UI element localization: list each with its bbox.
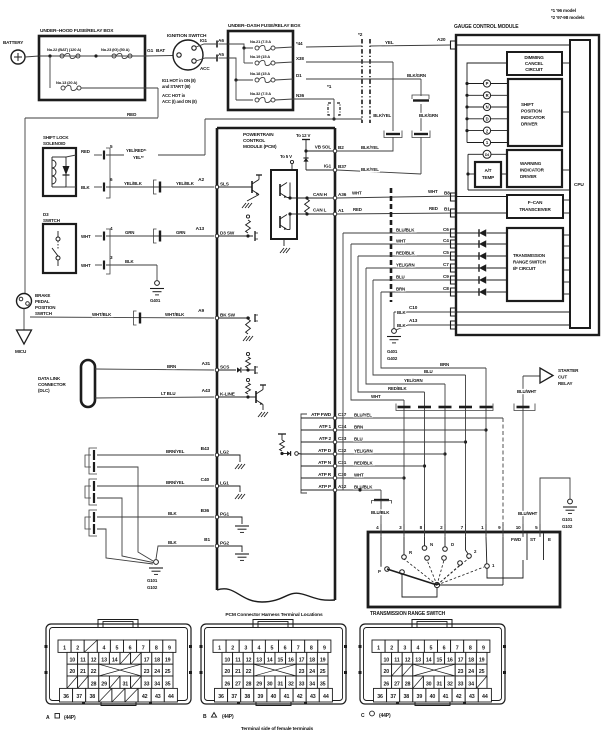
gauge pin C10 BLK xyxy=(394,305,570,316)
brake pedal position switch xyxy=(17,293,56,316)
wire column pin 2 YEL/GRN xyxy=(443,384,446,536)
svg-text:ATP 1: ATP 1 xyxy=(319,424,332,429)
wire column pin 10 BLU/WHT xyxy=(517,376,538,536)
svg-text:TRANSCEIVER: TRANSCEIVER xyxy=(519,207,551,212)
svg-text:A13: A13 xyxy=(409,318,418,323)
wire RED fuse 13 to brake switch xyxy=(25,112,158,294)
svg-text:43: 43 xyxy=(469,694,475,700)
svg-text:A43: A43 xyxy=(202,388,211,394)
wire BRN from PCM xyxy=(337,425,486,431)
svg-text:A5: A5 xyxy=(218,52,224,58)
wire BLK to B36 xyxy=(97,508,214,517)
wire BLK to B1 xyxy=(156,537,214,559)
svg-text:BLU/BLK: BLU/BLK xyxy=(371,510,390,515)
PCM pin B1 PG2 xyxy=(215,541,229,548)
svg-text:G102: G102 xyxy=(147,585,158,590)
svg-text:BK SW: BK SW xyxy=(220,313,236,318)
svg-text:3: 3 xyxy=(244,646,247,652)
indicator lamp N xyxy=(465,103,508,110)
svg-text:RED: RED xyxy=(353,207,362,212)
wire BLU/BLK junction to pin 4 xyxy=(358,488,390,536)
svg-text:39: 39 xyxy=(258,694,264,700)
svg-text:4: 4 xyxy=(102,646,105,652)
PCM pin A1 xyxy=(333,208,344,216)
svg-text:BLU: BLU xyxy=(424,369,433,374)
svg-text:18: 18 xyxy=(154,657,160,663)
wire column pin 1 BRN xyxy=(484,368,487,536)
wire BLK/GRN D1 to B37 xyxy=(306,73,438,174)
svg-text:A20: A20 xyxy=(437,37,446,43)
note model years xyxy=(551,8,585,20)
svg-text:*1: *1 xyxy=(327,84,332,90)
svg-text:DRIVER: DRIVER xyxy=(521,122,538,127)
svg-text:SOLENOID: SOLENOID xyxy=(43,141,66,146)
svg-text:24: 24 xyxy=(468,669,474,675)
svg-text:1: 1 xyxy=(218,646,221,652)
svg-text:INDICATOR: INDICATOR xyxy=(521,115,546,120)
svg-text:35: 35 xyxy=(320,681,326,687)
svg-text:22: 22 xyxy=(246,669,252,675)
wire A6 feed bus xyxy=(228,44,253,63)
range switch pin 10 xyxy=(516,524,523,537)
range switch pin 5 xyxy=(535,524,540,537)
svg-text:23: 23 xyxy=(458,669,464,675)
wire column pin 9 BLU/YEL dashed xyxy=(502,418,504,536)
svg-text:14: 14 xyxy=(426,657,432,663)
wire pin 5 to G101/G102 xyxy=(540,478,570,536)
range switch pin 4 xyxy=(376,524,381,537)
svg-text:C4: C4 xyxy=(443,238,449,243)
svg-text:B1: B1 xyxy=(444,207,450,212)
PCM pin A13 D3 SW xyxy=(215,231,235,238)
svg-text:CIRCUIT: CIRCUIT xyxy=(525,67,543,72)
svg-text:ATP FWD: ATP FWD xyxy=(311,412,332,417)
PCM CAN H wire xyxy=(297,192,335,200)
svg-text:D3: D3 xyxy=(43,212,49,217)
svg-text:5: 5 xyxy=(430,646,433,652)
svg-text:ATP D: ATP D xyxy=(318,448,332,453)
svg-text:C32: C32 xyxy=(338,448,347,453)
svg-text:VB SOL: VB SOL xyxy=(315,145,332,150)
svg-text:RANGE SWITCH: RANGE SWITCH xyxy=(513,260,546,265)
svg-text:10: 10 xyxy=(516,525,521,530)
svg-text:6: 6 xyxy=(284,646,287,652)
svg-text:CONTROL: CONTROL xyxy=(243,138,265,143)
svg-text:B37: B37 xyxy=(338,164,347,169)
PCM pin C33 xyxy=(333,436,346,444)
PCM PG2 ground xyxy=(218,546,249,560)
PCM CAN termination resistor xyxy=(305,199,310,213)
svg-text:35: 35 xyxy=(165,681,171,687)
svg-text:1: 1 xyxy=(63,646,66,652)
range switch pin 7 xyxy=(461,524,466,537)
wire column pin 3 WHT xyxy=(402,400,405,536)
connector C on BLK/GRN lower xyxy=(412,131,430,138)
svg-text:38: 38 xyxy=(89,694,95,700)
svg-text:BRN: BRN xyxy=(167,364,176,369)
range switch pin 8 xyxy=(420,524,425,537)
svg-text:C33: C33 xyxy=(338,436,347,441)
svg-text:DIMMING: DIMMING xyxy=(524,55,544,60)
svg-text:42: 42 xyxy=(297,694,303,700)
svg-text:G102: G102 xyxy=(562,524,573,529)
gauge pin A20 xyxy=(451,41,571,49)
PCM ATP FWD row xyxy=(301,412,335,418)
svg-text:SHIFT: SHIFT xyxy=(521,102,534,107)
svg-text:To 5 V: To 5 V xyxy=(280,154,292,159)
svg-text:36: 36 xyxy=(377,694,383,700)
svg-text:MICU: MICU xyxy=(15,349,27,354)
svg-text:C30: C30 xyxy=(338,472,347,477)
PCM pin C34 xyxy=(333,424,346,432)
svg-text:BLK: BLK xyxy=(397,310,407,315)
fuse No.32 (7.5 A) xyxy=(250,91,305,103)
svg-text:G1: G1 xyxy=(147,48,154,54)
svg-text:LG2: LG2 xyxy=(220,450,229,455)
svg-text:A31: A31 xyxy=(202,361,211,367)
PCM ATP 2 row xyxy=(301,436,335,442)
svg-text:ACC HOT in: ACC HOT in xyxy=(162,93,186,98)
svg-text:10: 10 xyxy=(225,657,231,663)
svg-text:LG1: LG1 xyxy=(220,481,229,486)
svg-text:BLU/BLK: BLU/BLK xyxy=(354,485,373,490)
svg-text:C9: C9 xyxy=(443,274,449,279)
indicator lamp P xyxy=(465,80,508,87)
svg-text:24: 24 xyxy=(309,669,315,675)
svg-text:STARTER: STARTER xyxy=(558,368,579,373)
svg-text:*44: *44 xyxy=(296,41,303,46)
svg-text:36: 36 xyxy=(63,694,69,700)
wire BRN gauge C8 xyxy=(381,287,456,293)
svg-text:25: 25 xyxy=(479,669,485,675)
svg-text:B1: B1 xyxy=(204,537,210,543)
svg-text:UNDER–HOOD FUSE/RELAY BOX: UNDER–HOOD FUSE/RELAY BOX xyxy=(40,28,114,34)
svg-text:13: 13 xyxy=(256,657,262,663)
PCM connector A (44P) xyxy=(45,620,193,722)
solenoid pin 5 xyxy=(81,144,113,198)
wire BLK/YEL X38 to B2 xyxy=(306,62,393,151)
wire IG1 to A6 xyxy=(196,38,228,48)
PCM pin A9 BK SW xyxy=(215,313,235,320)
PCM pin B37 xyxy=(333,164,346,172)
svg-text:31: 31 xyxy=(123,681,129,687)
svg-text:2: 2 xyxy=(390,646,393,652)
wire BLK to G401 xyxy=(106,259,157,280)
harness connector row xyxy=(396,404,535,411)
fuse No.18 (15 A) xyxy=(250,71,302,83)
svg-text:BLU: BLU xyxy=(354,437,363,442)
svg-text:IG1 HOT in ON (II): IG1 HOT in ON (II) xyxy=(162,78,196,83)
svg-text:BLK: BLK xyxy=(168,540,178,545)
svg-text:INDICATOR: INDICATOR xyxy=(520,168,545,173)
PCM LG1 ground xyxy=(218,486,245,499)
svg-text:5: 5 xyxy=(271,646,274,652)
wire WHT gauge C4 xyxy=(351,239,456,245)
MICU triangle xyxy=(15,309,32,355)
range switch dashed positions xyxy=(404,558,484,585)
svg-text:2: 2 xyxy=(76,646,79,652)
svg-text:LT BLU: LT BLU xyxy=(161,391,175,396)
svg-text:D: D xyxy=(451,542,454,547)
svg-text:9: 9 xyxy=(323,646,326,652)
fuse No.19 (15 A) xyxy=(250,54,304,66)
svg-text:BRAKE: BRAKE xyxy=(35,293,50,298)
svg-text:RED: RED xyxy=(127,112,137,117)
svg-text:Terminal side of female termin: Terminal side of female terminals xyxy=(241,726,314,732)
svg-text:RED: RED xyxy=(429,206,438,211)
svg-text:R: R xyxy=(486,93,489,98)
wire YEL/BLK to A2 xyxy=(106,177,214,187)
svg-text:C17: C17 xyxy=(338,412,347,417)
svg-text:28: 28 xyxy=(91,681,97,687)
svg-text:25: 25 xyxy=(165,669,171,675)
svg-text:MODULE (PCM): MODULE (PCM) xyxy=(243,144,277,149)
svg-text:WHT: WHT xyxy=(354,473,364,478)
svg-text:A13: A13 xyxy=(196,226,205,232)
indicator lamp 2 xyxy=(465,127,508,134)
D3 switch xyxy=(43,212,76,273)
gauge pin C8 with diode xyxy=(443,286,570,296)
svg-text:ACC (I) and ON (II): ACC (I) and ON (II) xyxy=(162,99,197,104)
svg-text:38: 38 xyxy=(403,694,409,700)
svg-text:37: 37 xyxy=(76,694,82,700)
svg-text:42: 42 xyxy=(456,694,462,700)
svg-text:A1: A1 xyxy=(338,208,344,213)
range switch pin 2 xyxy=(440,524,445,537)
ground G101 G102 left xyxy=(147,560,163,590)
connector on WHT/BLK xyxy=(134,311,141,325)
PCM pin C32 xyxy=(333,448,346,456)
shift lock solenoid xyxy=(43,135,76,196)
warning indicator driver box xyxy=(507,150,570,187)
svg-text:SLS: SLS xyxy=(220,182,229,187)
PCM CAN transceiver xyxy=(271,154,297,253)
svg-text:N: N xyxy=(430,542,433,547)
svg-text:BRN/YEL: BRN/YEL xyxy=(166,480,185,485)
wire ACC to A5 xyxy=(196,52,228,62)
svg-text:19: 19 xyxy=(165,657,171,663)
svg-text:25: 25 xyxy=(320,669,326,675)
svg-text:4: 4 xyxy=(257,646,260,652)
gauge pin C9 with diode xyxy=(443,274,570,284)
svg-text:UNDER–DASH FUSE/RELAY BOX: UNDER–DASH FUSE/RELAY BOX xyxy=(228,23,301,29)
svg-text:WHT: WHT xyxy=(81,263,91,268)
svg-text:6: 6 xyxy=(443,646,446,652)
svg-text:(44P): (44P) xyxy=(379,713,391,719)
svg-text:BLK/GRN: BLK/GRN xyxy=(407,73,426,78)
svg-text:43: 43 xyxy=(310,694,316,700)
PCM connector B (44P) xyxy=(200,620,348,721)
wire YEL/RED N36 branch xyxy=(205,99,362,155)
svg-text:C7: C7 xyxy=(443,262,449,267)
PCM ATP 1 row xyxy=(301,424,335,430)
PCM pin C17 xyxy=(333,412,346,420)
wire LT BLU to A43 xyxy=(95,388,214,398)
svg-text:BLK/YEL: BLK/YEL xyxy=(373,113,391,118)
svg-text:B43: B43 xyxy=(201,446,210,452)
indicator lamp 1 xyxy=(467,139,508,146)
caption terminal side xyxy=(241,726,314,732)
connector *2 xyxy=(358,32,370,123)
PCM CAN L wire xyxy=(297,208,335,216)
svg-text:TRANSMISSION RANGE SWITCH: TRANSMISSION RANGE SWITCH xyxy=(370,611,446,617)
svg-text:16: 16 xyxy=(447,657,453,663)
svg-text:TEMP: TEMP xyxy=(482,175,494,180)
svg-text:BRN: BRN xyxy=(396,287,405,292)
svg-text:23: 23 xyxy=(144,669,150,675)
under-hood fuse/relay box xyxy=(39,28,145,100)
transmission range switch connector C (44P) xyxy=(359,620,507,720)
svg-text:44: 44 xyxy=(482,694,488,700)
svg-text:YEL/GRN: YEL/GRN xyxy=(404,378,422,383)
svg-text:BRN: BRN xyxy=(440,362,449,367)
svg-text:9: 9 xyxy=(482,646,485,652)
svg-text:WHT: WHT xyxy=(81,234,91,239)
wire RED/BLK gauge C5 xyxy=(358,251,456,257)
svg-text:29: 29 xyxy=(101,681,107,687)
svg-text:B: B xyxy=(203,714,207,720)
PCM PG1 ground xyxy=(218,517,249,532)
svg-text:BLU: BLU xyxy=(396,275,405,280)
range switch FWD ST E labels xyxy=(511,534,551,561)
svg-text:PEDAL: PEDAL xyxy=(35,299,50,304)
svg-text:IG1: IG1 xyxy=(324,164,332,169)
svg-text:15: 15 xyxy=(437,657,443,663)
svg-text:CAN L: CAN L xyxy=(313,208,327,213)
svg-text:P: P xyxy=(486,81,489,86)
wire WHT descent xyxy=(351,244,404,400)
svg-text:YEL/RED*¹: YEL/RED*¹ xyxy=(126,148,147,153)
svg-text:29: 29 xyxy=(256,681,262,687)
svg-text:26: 26 xyxy=(384,681,390,687)
transmission range switch I/F circuit box xyxy=(507,228,563,301)
wire column pin 7 BLU xyxy=(464,375,467,536)
F-CAN transceiver box xyxy=(507,195,570,218)
svg-text:POWERTRAIN: POWERTRAIN xyxy=(243,132,274,137)
svg-text:C6: C6 xyxy=(443,227,449,232)
svg-text:1: 1 xyxy=(377,646,380,652)
svg-text:8: 8 xyxy=(155,646,158,652)
svg-text:GRN: GRN xyxy=(125,230,134,235)
wire WHT from PCM xyxy=(337,473,404,479)
range switch rotary contacts xyxy=(378,542,495,588)
PCM pin B36 PG1 xyxy=(215,512,229,519)
svg-text:CONNECTOR: CONNECTOR xyxy=(38,382,66,387)
svg-text:3: 3 xyxy=(403,646,406,652)
svg-text:7: 7 xyxy=(142,646,145,652)
svg-text:D1: D1 xyxy=(296,73,302,78)
range switch internal wiring xyxy=(381,537,523,597)
svg-text:15: 15 xyxy=(278,657,284,663)
PCM SLS driver transistor xyxy=(218,175,262,208)
wire BRN to A31 xyxy=(95,361,214,370)
svg-text:4: 4 xyxy=(416,646,419,652)
connector pair LG2 xyxy=(85,448,97,474)
svg-text:A12: A12 xyxy=(338,484,347,489)
ground G101 G102 right xyxy=(562,499,577,529)
wire BRN/YEL to C40 xyxy=(97,477,214,486)
svg-text:C40: C40 xyxy=(201,477,210,483)
wire A5 feed bus xyxy=(228,58,253,100)
svg-text:No.13 (20 A): No.13 (20 A) xyxy=(56,80,78,85)
wire pair3 to ground xyxy=(97,529,153,564)
wire BLU/BLK from PCM xyxy=(337,485,381,491)
range switch pin 3 xyxy=(399,524,404,537)
wire YEL/GRN descent xyxy=(366,268,445,384)
svg-text:13: 13 xyxy=(415,657,421,663)
svg-text:G101: G101 xyxy=(147,578,158,583)
svg-text:ACC: ACC xyxy=(200,66,210,71)
ground G401 xyxy=(150,281,164,303)
svg-text:(44P): (44P) xyxy=(64,715,76,721)
svg-text:37: 37 xyxy=(231,694,237,700)
svg-text:WHT/BLK: WHT/BLK xyxy=(165,312,185,317)
svg-text:CAN H: CAN H xyxy=(313,192,328,197)
svg-text:P: P xyxy=(378,569,381,574)
svg-text:42: 42 xyxy=(142,694,148,700)
svg-text:BATTERY: BATTERY xyxy=(3,40,23,45)
svg-text:BLK: BLK xyxy=(397,323,407,328)
svg-text:A36: A36 xyxy=(338,192,347,197)
svg-text:DRIVER: DRIVER xyxy=(520,174,537,179)
svg-text:RED/BLK: RED/BLK xyxy=(388,386,407,391)
fuse No.21 (7.5 A) xyxy=(250,39,303,51)
connector pair LG1 xyxy=(85,479,97,505)
svg-text:BLK: BLK xyxy=(125,259,135,264)
svg-text:BLK/YEL: BLK/YEL xyxy=(361,145,379,150)
svg-text:34: 34 xyxy=(468,681,474,687)
svg-text:21: 21 xyxy=(235,669,241,675)
PCM D3 SW input xyxy=(218,215,258,241)
svg-text:G401: G401 xyxy=(150,298,161,303)
svg-text:19: 19 xyxy=(320,657,326,663)
svg-text:No.32 (7.5 A: No.32 (7.5 A xyxy=(250,91,271,96)
svg-text:10: 10 xyxy=(384,657,390,663)
svg-text:11: 11 xyxy=(394,657,400,663)
PCM K-LINE driver xyxy=(218,378,268,417)
svg-text:No.22 (BAT) (120 A): No.22 (BAT) (120 A) xyxy=(47,47,82,52)
svg-text:41: 41 xyxy=(284,694,290,700)
wire WHT/BLK to A9 xyxy=(30,308,214,318)
PCM pin B43 LG2 xyxy=(215,450,229,457)
svg-text:30: 30 xyxy=(426,681,432,687)
svg-text:C: C xyxy=(361,713,365,719)
svg-text:37: 37 xyxy=(390,694,396,700)
connector *1 xyxy=(327,84,340,115)
svg-text:YEL/GRN: YEL/GRN xyxy=(396,263,414,268)
svg-text:ATP P: ATP P xyxy=(318,484,331,489)
PCM pin A43 K-LINE xyxy=(215,392,235,399)
svg-text:27: 27 xyxy=(394,681,400,687)
svg-text:WHT: WHT xyxy=(352,191,362,196)
svg-text:28: 28 xyxy=(405,681,411,687)
svg-text:*1 '96 model: *1 '96 model xyxy=(551,8,576,13)
svg-text:33: 33 xyxy=(144,681,150,687)
connector on YEL/BLK xyxy=(154,180,161,194)
svg-text:17: 17 xyxy=(458,657,464,663)
PCM To 12 V / VB SOL xyxy=(296,133,335,153)
svg-text:*2 '97-98 models: *2 '97-98 models xyxy=(551,15,585,20)
svg-text:ATP 2: ATP 2 xyxy=(319,436,332,441)
svg-text:RELAY: RELAY xyxy=(558,381,572,386)
PCM ATP D row xyxy=(301,448,335,454)
svg-text:RED/BLK: RED/BLK xyxy=(354,461,373,466)
svg-text:6: 6 xyxy=(129,646,132,652)
svg-text:12: 12 xyxy=(246,657,252,663)
svg-text:20: 20 xyxy=(384,669,390,675)
gauge control module box xyxy=(454,24,599,335)
svg-text:X38: X38 xyxy=(296,56,304,61)
